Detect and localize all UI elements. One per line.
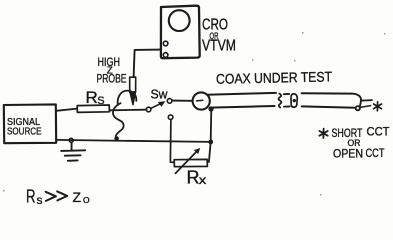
CRO screen circle	[169, 10, 190, 31]
svg-text:O: O	[83, 195, 90, 205]
coax shield end terminal	[356, 106, 360, 110]
svg-text:Z: Z	[73, 189, 82, 205]
probe tip	[130, 92, 136, 105]
probe hook arc	[118, 91, 137, 105]
Rx arrowhead	[194, 148, 200, 154]
ground tap node	[69, 138, 73, 142]
coax right cap	[352, 94, 361, 109]
asterisk annotation star	[319, 129, 327, 138]
svg-text:R: R	[187, 168, 200, 188]
coax break loop	[291, 94, 297, 107]
svg-text:R: R	[86, 88, 98, 107]
wire switch to coax	[172, 100, 193, 102]
variable resistor Rx	[174, 159, 207, 166]
wire switch lower contact to Rx	[170, 120, 174, 163]
switch upper contact	[167, 99, 172, 104]
svg-text:CCT: CCT	[367, 125, 391, 139]
coax bottom line left section	[210, 106, 275, 108]
coax break worm squiggle	[279, 94, 282, 108]
wire coax shield down to Rx	[209, 109, 211, 162]
chevron 2	[57, 191, 67, 200]
svg-text:Sw: Sw	[151, 86, 169, 101]
coax left end circle	[193, 92, 210, 109]
coax top line right section	[302, 92, 352, 94]
coax break top dash	[284, 93, 289, 95]
probe body HIGH-Z	[130, 77, 136, 92]
svg-text:VTVM: VTVM	[202, 38, 236, 55]
instrument CRO/VTVM box	[161, 6, 200, 59]
wire Rs to switch	[109, 109, 146, 112]
CRO knob 1	[163, 41, 168, 46]
svg-text:S: S	[97, 95, 104, 107]
CRO knob 2	[163, 53, 168, 58]
probe ground lead end blob	[114, 136, 119, 141]
chevron 1	[46, 192, 56, 201]
svg-text:x: x	[199, 173, 207, 187]
switch lower contact	[168, 115, 173, 120]
switch arm arrowhead	[158, 101, 166, 107]
svg-text:PROBE: PROBE	[97, 72, 127, 86]
coax break loop dot	[293, 99, 296, 102]
coax top line left section	[207, 93, 276, 95]
coax center conductor tick	[197, 99, 203, 102]
svg-text:COAX UNDER TEST: COAX UNDER TEST	[216, 68, 333, 86]
svg-text:OPEN: OPEN	[333, 147, 363, 161]
svg-text:SOURCE: SOURCE	[7, 126, 42, 138]
resistor Rs	[77, 105, 109, 112]
coax bottom line right section	[302, 106, 356, 107]
asterisk at line end	[374, 102, 382, 111]
probe ground lead squiggle	[113, 103, 124, 136]
ground symbol	[61, 142, 85, 160]
svg-text:CCT: CCT	[366, 146, 386, 160]
wire source to Rs	[56, 109, 77, 111]
junction node A under coax	[208, 106, 213, 111]
ground return wire	[56, 140, 211, 142]
svg-text:R: R	[26, 187, 36, 207]
wire probe to CRO	[134, 50, 161, 78]
coax break bottom dash	[284, 105, 290, 107]
switch arm	[151, 103, 163, 109]
junction node B ground	[208, 140, 213, 145]
Rx arrow	[175, 150, 197, 173]
shield stub	[360, 106, 370, 108]
svg-text:s: s	[37, 193, 43, 207]
center conductor stub	[361, 99, 372, 102]
signal source box	[4, 104, 56, 143]
switch Sw input contact	[146, 107, 151, 112]
